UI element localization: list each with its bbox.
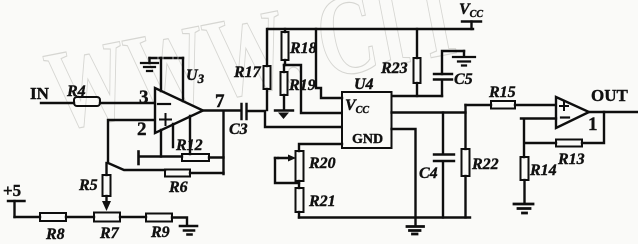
ground at C5	[453, 51, 475, 66]
ground right of R9	[180, 226, 197, 235]
wire R7 to R9	[120, 216, 146, 218]
pin 1 label	[588, 114, 598, 135]
ground above U3	[141, 58, 158, 71]
svg-text:R15: R15	[488, 84, 516, 101]
label U3	[186, 67, 205, 86]
feedback wire to R13	[582, 112, 604, 143]
resistor R18	[282, 29, 317, 65]
resistor R9	[146, 214, 172, 242]
wire U4 output	[392, 105, 466, 113]
wire C3 to U4	[247, 111, 342, 127]
resistor R13	[556, 140, 585, 169]
wire IN to R4	[41, 102, 74, 104]
wire output node down to feedback	[222, 111, 224, 174]
IC U4	[342, 92, 392, 148]
wire R18/R19 junction to U4	[284, 65, 342, 113]
resistor R14	[521, 157, 557, 203]
wiper loop R20	[275, 155, 299, 184]
wiper arrow R5 to R7	[102, 196, 111, 211]
wire output	[589, 111, 638, 113]
Vcc terminal	[459, 1, 483, 29]
capacitor C4	[419, 113, 454, 218]
svg-text:C4: C4	[419, 165, 438, 182]
wire U4 to R23/C5	[392, 95, 443, 97]
resistor R23	[380, 29, 421, 96]
svg-text:R12: R12	[175, 137, 203, 154]
svg-text:OUT: OUT	[591, 86, 629, 105]
node OUT	[591, 86, 629, 105]
pin 2 label	[137, 119, 147, 140]
svg-text:IN: IN	[30, 84, 50, 103]
node +5	[3, 181, 25, 217]
resistor R19	[281, 65, 316, 95]
svg-text:R9: R9	[150, 224, 170, 241]
resistor R12	[175, 137, 209, 161]
wire R6 right	[190, 172, 224, 174]
wire Vcc rail to U4	[316, 29, 342, 98]
svg-text:C5: C5	[454, 71, 473, 88]
svg-text:R20: R20	[308, 155, 336, 172]
op-amp U3 pin stubs to R12	[161, 116, 190, 157]
terminal bar R12 left	[137, 152, 140, 165]
svg-text:2: 2	[137, 119, 147, 140]
svg-text:C3: C3	[229, 121, 248, 138]
ground at bottom rail	[407, 227, 424, 235]
svg-text:R6: R6	[168, 179, 188, 196]
op-amp U3	[155, 88, 203, 133]
ground under R14	[514, 204, 533, 213]
wire op-amp output to C3	[203, 109, 240, 111]
capacitor C5	[434, 51, 473, 96]
potentiometer R7	[94, 213, 120, 243]
svg-text:1: 1	[588, 114, 598, 135]
svg-text:R23: R23	[380, 60, 408, 77]
svg-text:R8: R8	[45, 226, 65, 243]
resistor R4	[66, 83, 100, 106]
pin 3 label	[139, 87, 149, 108]
op-amp output stage	[556, 97, 589, 128]
svg-text:3: 3	[139, 87, 149, 108]
svg-text:R22: R22	[471, 156, 499, 173]
wire +5 to R8	[15, 216, 41, 218]
svg-text:R13: R13	[557, 151, 585, 168]
pin 7 label	[215, 91, 225, 112]
resistor R6	[165, 170, 190, 197]
svg-text:7: 7	[215, 91, 225, 112]
svg-text:R4: R4	[66, 83, 86, 100]
resistor R22	[462, 113, 499, 218]
bottom rail	[299, 216, 470, 218]
wire R8 to R7	[66, 216, 94, 218]
wire R5 top	[105, 163, 107, 175]
capacitor C3	[229, 104, 248, 138]
top rail	[268, 28, 473, 30]
wire U4 GND to ground	[392, 129, 416, 225]
svg-text:+5: +5	[3, 181, 21, 200]
wire pin 2 loop	[108, 120, 165, 170]
svg-text:U4: U4	[354, 76, 374, 93]
wire R20 to U4	[299, 144, 342, 151]
dashed case bracket U3	[150, 57, 184, 59]
resistor R5	[78, 175, 111, 196]
label U4	[354, 76, 374, 93]
potentiometer R20	[296, 151, 336, 181]
svg-text:R5: R5	[78, 177, 98, 194]
wire R4 to op-amp pin 3	[100, 102, 155, 104]
svg-text:GND: GND	[352, 132, 383, 147]
svg-text:R7: R7	[99, 225, 120, 242]
svg-text:R21: R21	[308, 193, 336, 210]
ground under R19	[275, 95, 293, 119]
resistor R17	[233, 29, 271, 110]
svg-text:R14: R14	[529, 162, 557, 179]
wire to R12	[139, 155, 182, 157]
svg-text:VCC: VCC	[459, 1, 483, 20]
node IN	[30, 84, 50, 103]
svg-text:R17: R17	[233, 64, 262, 81]
wire R9 to ground	[172, 218, 187, 226]
svg-text:R19: R19	[288, 77, 316, 94]
svg-text:R18: R18	[289, 40, 317, 57]
resistor R21	[296, 181, 336, 218]
wire R13 to inverting input	[521, 119, 556, 158]
resistor R15	[466, 84, 557, 109]
wire R12 right	[209, 156, 224, 158]
resistor R8	[40, 213, 66, 243]
